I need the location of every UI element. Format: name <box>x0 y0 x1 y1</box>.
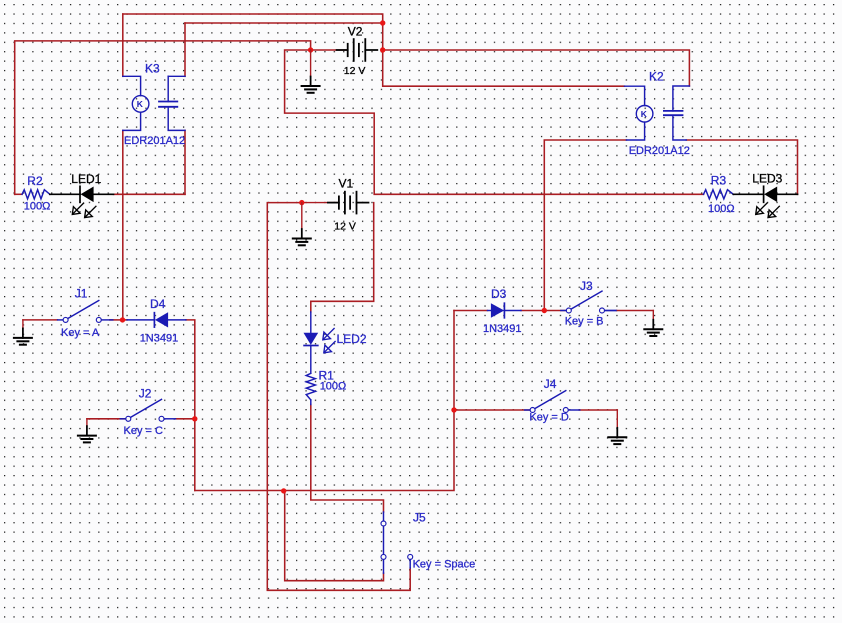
svg-text:K2: K2 <box>649 69 664 83</box>
svg-text:R2: R2 <box>27 174 43 188</box>
svg-text:D4: D4 <box>150 297 166 311</box>
svg-text:K: K <box>641 109 648 119</box>
svg-text:V2: V2 <box>348 24 363 38</box>
svg-text:LED1: LED1 <box>71 172 101 186</box>
svg-text:Key = A: Key = A <box>61 327 100 339</box>
svg-text:Key = Space: Key = Space <box>413 559 476 571</box>
svg-text:12 V: 12 V <box>344 65 366 77</box>
svg-text:K3: K3 <box>145 62 160 76</box>
svg-text:EDR201A12: EDR201A12 <box>629 145 690 157</box>
svg-text:Key = C: Key = C <box>124 425 163 437</box>
svg-text:LED2: LED2 <box>337 332 367 346</box>
svg-text:J1: J1 <box>75 287 88 301</box>
svg-text:EDR201A12: EDR201A12 <box>124 135 185 147</box>
svg-text:1N3491: 1N3491 <box>140 332 179 344</box>
svg-text:J4: J4 <box>544 377 557 391</box>
svg-text:Key = D: Key = D <box>529 412 568 424</box>
svg-text:K: K <box>137 99 144 109</box>
svg-text:100Ω: 100Ω <box>320 380 347 392</box>
svg-text:D3: D3 <box>491 287 507 301</box>
svg-text:LED3: LED3 <box>752 171 782 185</box>
svg-text:Key = B: Key = B <box>565 316 604 328</box>
svg-text:R3: R3 <box>711 174 727 188</box>
svg-text:1N3491: 1N3491 <box>483 323 522 335</box>
svg-text:J5: J5 <box>413 510 426 524</box>
svg-text:J3: J3 <box>580 279 593 293</box>
svg-text:12 V: 12 V <box>334 221 356 233</box>
svg-text:J2: J2 <box>139 387 152 401</box>
svg-text:100Ω: 100Ω <box>708 203 735 215</box>
svg-text:V1: V1 <box>339 177 354 191</box>
svg-text:100Ω: 100Ω <box>24 201 51 213</box>
